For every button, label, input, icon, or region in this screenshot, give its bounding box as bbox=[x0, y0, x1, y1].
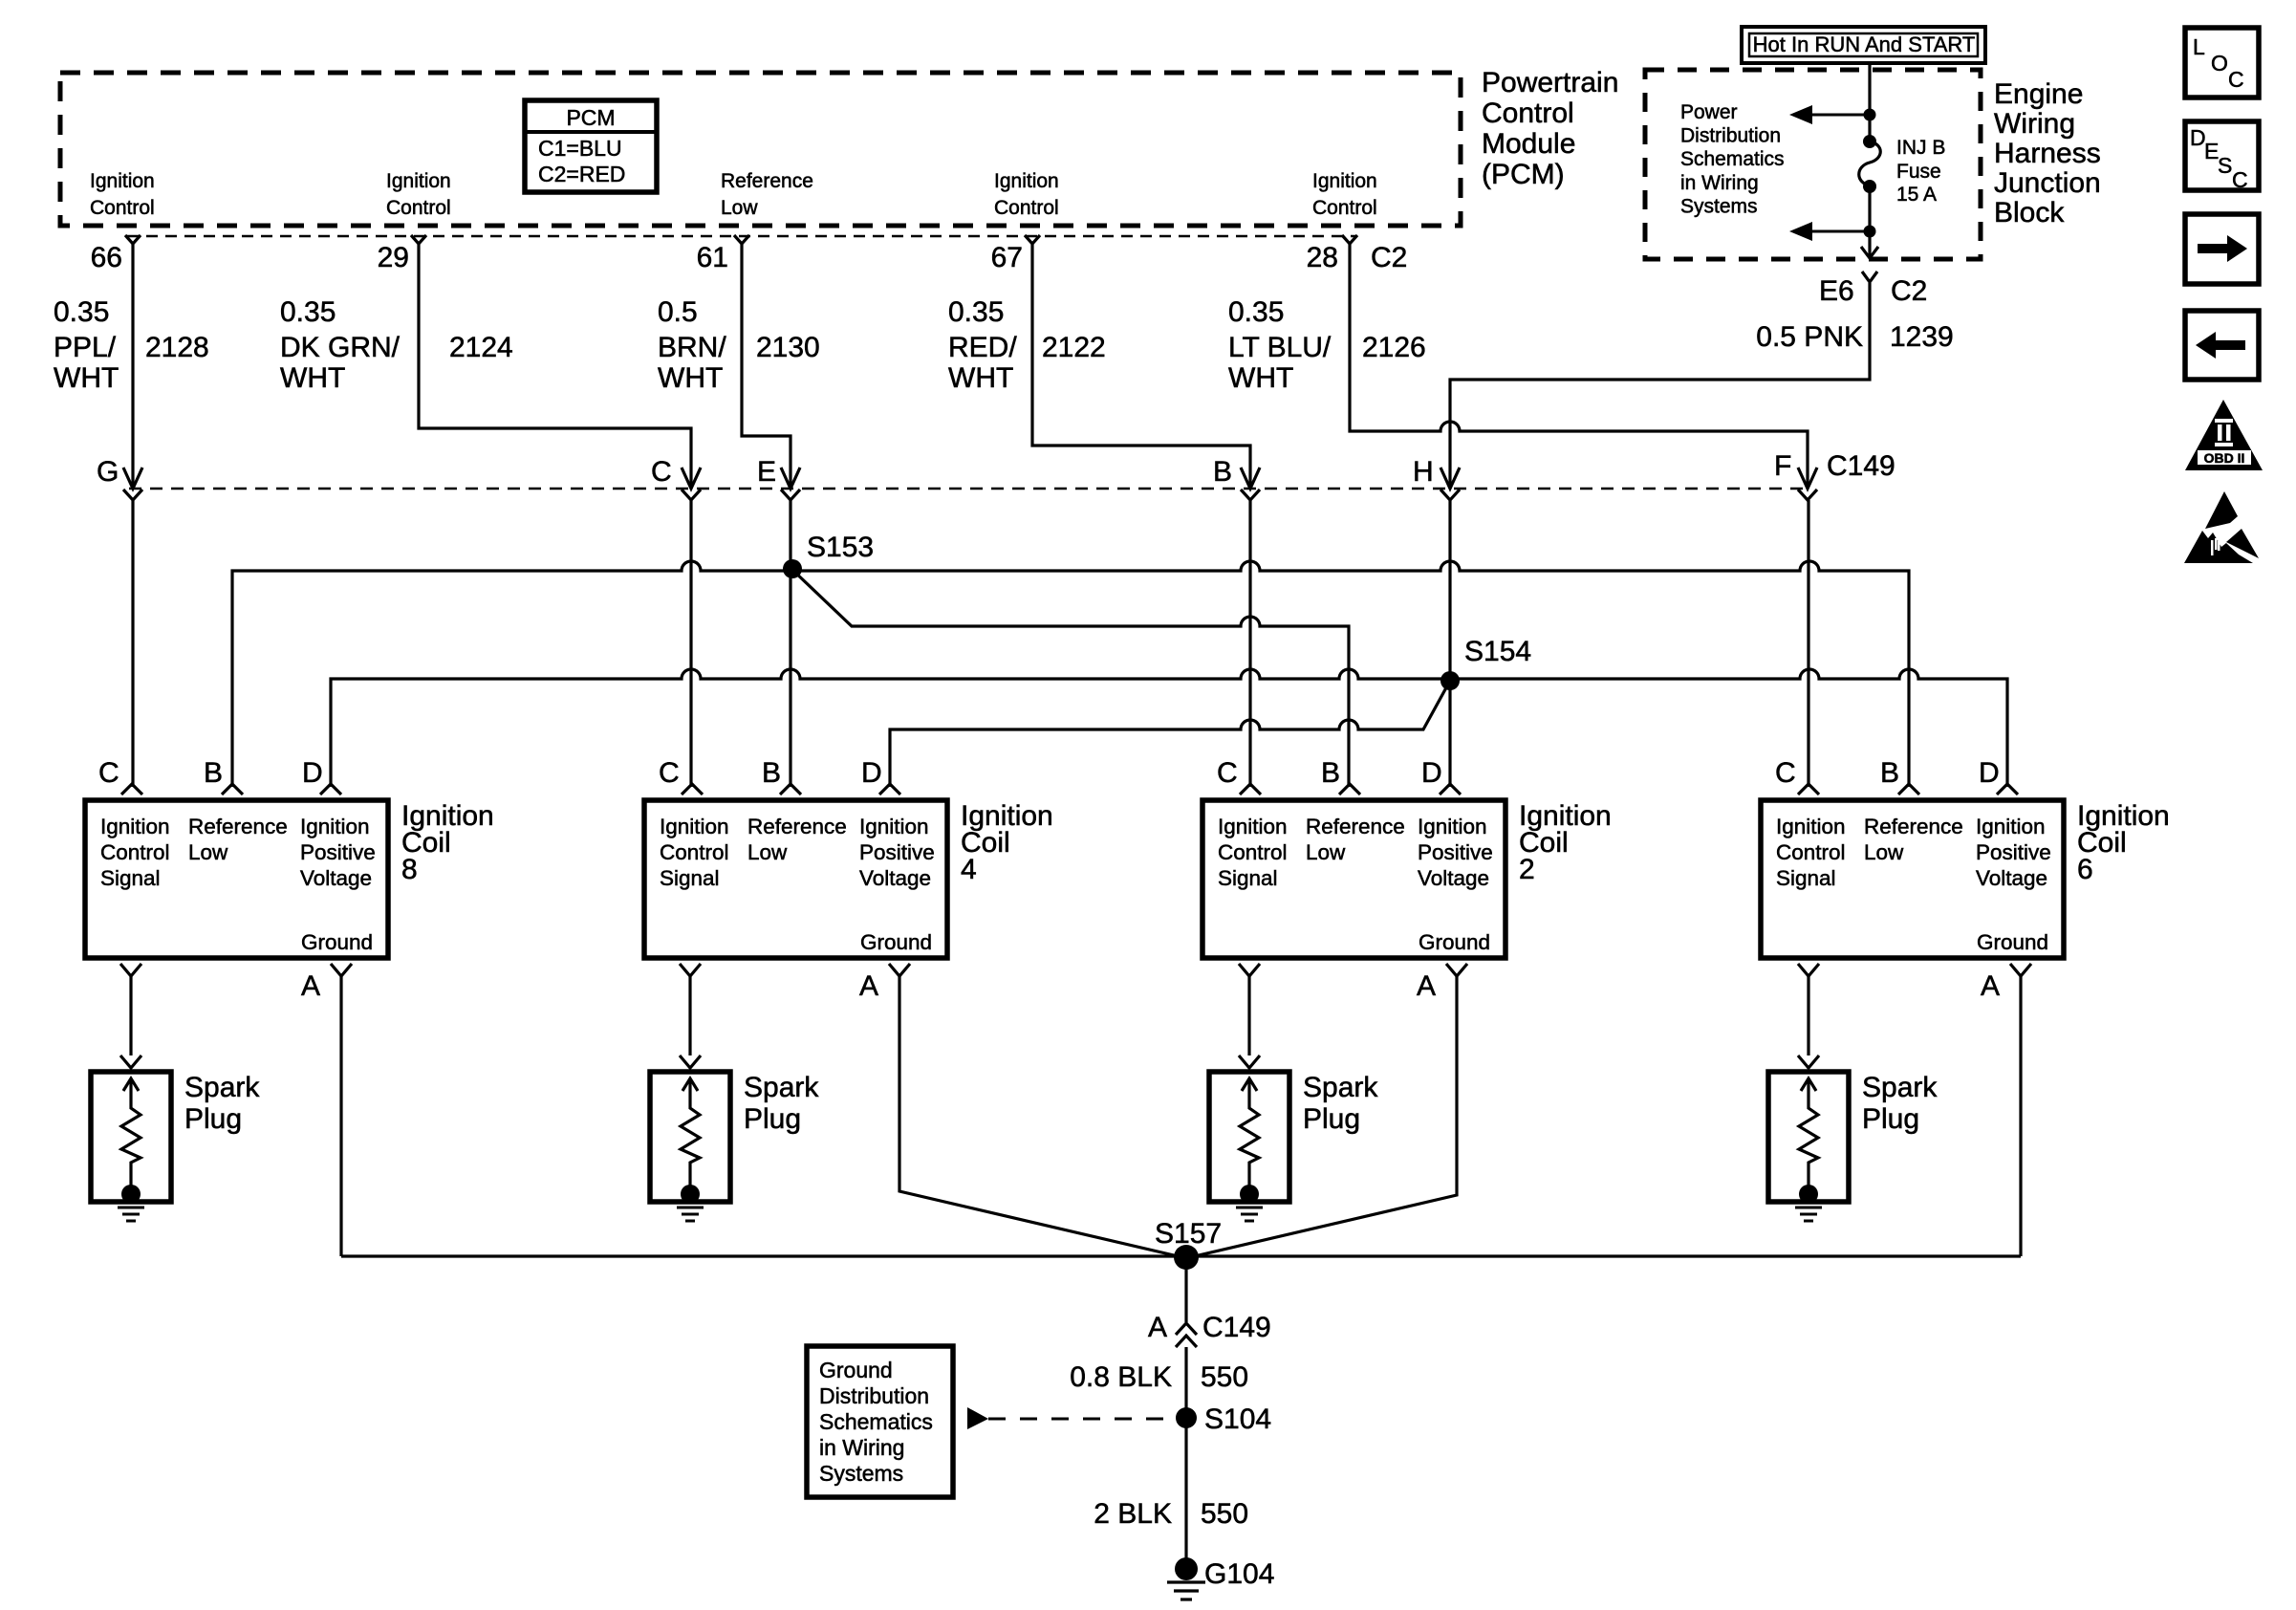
svg-text:E: E bbox=[757, 456, 776, 488]
svg-text:Ignition: Ignition bbox=[1312, 170, 1377, 192]
C149 pass-through arrow G bbox=[123, 468, 142, 489]
svg-text:Ground: Ground bbox=[819, 1358, 893, 1382]
PCM pin 61 terminal bbox=[734, 235, 749, 244]
svg-text:E6: E6 bbox=[1819, 275, 1854, 307]
svg-text:G104: G104 bbox=[1204, 1558, 1274, 1590]
svg-text:WHT: WHT bbox=[948, 362, 1013, 394]
spark plug bbox=[1768, 976, 1938, 1221]
svg-text:Ignition: Ignition bbox=[90, 170, 155, 192]
svg-text:Signal: Signal bbox=[1218, 866, 1278, 890]
svg-text:C: C bbox=[651, 456, 672, 488]
svg-text:Signal: Signal bbox=[1776, 866, 1836, 890]
wire 2130 BRN/WHT from pin 61 to C149 E bbox=[742, 244, 791, 489]
PCM pin 67 terminal bbox=[1025, 235, 1040, 244]
wire 550 0.8 BLK bbox=[1184, 1347, 1187, 1569]
svg-text:1239: 1239 bbox=[1890, 321, 1954, 353]
icon LOC bbox=[2185, 28, 2259, 98]
wire C149 C to ignition coil 4 pin C bbox=[689, 500, 692, 787]
C149 pass-through arrow E bbox=[781, 468, 800, 489]
svg-text:C: C bbox=[1217, 757, 1238, 789]
svg-text:Harness: Harness bbox=[1994, 138, 2101, 169]
S157 ground bus horizontal bbox=[341, 1254, 2021, 1257]
svg-text:Reference: Reference bbox=[1864, 815, 1963, 838]
PCM pin 66 terminal bbox=[125, 235, 141, 244]
svg-text:Control: Control bbox=[1776, 840, 1846, 864]
svg-text:O: O bbox=[2211, 51, 2228, 76]
svg-text:Ground: Ground bbox=[860, 930, 932, 954]
ground wire from S157 through C149 A bbox=[1184, 1257, 1187, 1322]
branch arrow to power distribution (bottom) bbox=[1864, 226, 1876, 238]
svg-text:INJ B: INJ B bbox=[1896, 137, 1945, 159]
svg-text:Spark: Spark bbox=[1303, 1072, 1378, 1103]
svg-text:61: 61 bbox=[697, 242, 728, 273]
svg-text:Fuse: Fuse bbox=[1896, 161, 1941, 183]
svg-text:C: C bbox=[98, 757, 119, 789]
svg-text:0.5 PNK: 0.5 PNK bbox=[1756, 321, 1863, 353]
svg-text:0.35: 0.35 bbox=[54, 296, 109, 328]
svg-text:B: B bbox=[204, 757, 223, 789]
fuse INJ B 15 A bbox=[1863, 135, 1876, 148]
svg-text:C2=RED: C2=RED bbox=[538, 162, 625, 186]
svg-text:Schematics: Schematics bbox=[1680, 148, 1785, 170]
connector E6 C2 bbox=[1862, 272, 1877, 282]
svg-text:Spark: Spark bbox=[1862, 1072, 1938, 1103]
svg-text:Spark: Spark bbox=[184, 1072, 260, 1103]
svg-text:Control: Control bbox=[100, 840, 170, 864]
svg-text:C: C bbox=[659, 757, 680, 789]
svg-text:L: L bbox=[2193, 34, 2205, 59]
svg-text:Voltage: Voltage bbox=[859, 866, 931, 890]
PCM connector C1/C2 dashed line bbox=[127, 235, 1355, 238]
svg-text:B: B bbox=[1321, 757, 1340, 789]
svg-text:8: 8 bbox=[401, 854, 418, 885]
svg-text:550: 550 bbox=[1201, 1498, 1248, 1530]
svg-text:6: 6 bbox=[2077, 854, 2093, 885]
svg-text:Power: Power bbox=[1680, 101, 1738, 123]
svg-text:Block: Block bbox=[1994, 197, 2065, 228]
wire C149 H through S154 to ignition coil 2 pin D bbox=[1448, 500, 1451, 787]
connector C149 dashed line bbox=[129, 488, 1808, 490]
svg-text:2130: 2130 bbox=[756, 332, 820, 363]
svg-text:0.35: 0.35 bbox=[280, 296, 336, 328]
ignition positive bus from coil 8 pin D through S154 to coil 6 pin D bbox=[331, 669, 2007, 787]
wire C149 F to ignition coil 6 pin C bbox=[1807, 500, 1809, 787]
reference low bus from coil 8 pin B through S153 to coil 6 pin B bbox=[232, 561, 1909, 787]
svg-text:Ignition: Ignition bbox=[386, 170, 451, 192]
svg-text:Low: Low bbox=[1864, 840, 1904, 864]
svg-text:Positive: Positive bbox=[1418, 840, 1493, 864]
svg-text:Reference: Reference bbox=[747, 815, 847, 838]
wire 2126 LT BLU/WHT from pin 28 to C149 F, hop over PNK wire bbox=[1350, 244, 1808, 489]
splice S104 bbox=[1176, 1407, 1197, 1428]
icon DESC bbox=[2185, 121, 2259, 192]
PCM pin 29 terminal bbox=[411, 235, 426, 244]
svg-text:Control: Control bbox=[1312, 197, 1377, 219]
svg-text:29: 29 bbox=[378, 242, 409, 273]
svg-text:Positive: Positive bbox=[1976, 840, 2051, 864]
svg-text:Distribution: Distribution bbox=[1680, 125, 1781, 147]
svg-text:Ignition: Ignition bbox=[1976, 815, 2046, 838]
ignition coil 8 bbox=[85, 757, 494, 1002]
svg-text:(PCM): (PCM) bbox=[1482, 159, 1565, 190]
C149 pass-through arrow H bbox=[1440, 468, 1460, 489]
svg-text:Voltage: Voltage bbox=[1418, 866, 1489, 890]
svg-text:DK GRN/: DK GRN/ bbox=[280, 332, 401, 363]
svg-text:A: A bbox=[1417, 970, 1436, 1002]
svg-text:Ignition: Ignition bbox=[994, 170, 1059, 192]
svg-text:Plug: Plug bbox=[1303, 1103, 1360, 1135]
svg-text:S104: S104 bbox=[1204, 1403, 1271, 1435]
PCM module dashed outline box bbox=[60, 73, 1461, 226]
svg-text:Ignition: Ignition bbox=[1418, 815, 1487, 838]
svg-text:Distribution: Distribution bbox=[819, 1383, 929, 1408]
svg-text:Engine: Engine bbox=[1994, 78, 2083, 110]
svg-text:2122: 2122 bbox=[1042, 332, 1106, 363]
svg-text:Control: Control bbox=[1218, 840, 1288, 864]
svg-text:Ignition: Ignition bbox=[1776, 815, 1846, 838]
svg-text:S154: S154 bbox=[1464, 636, 1531, 667]
PCM pin 28 terminal, connector C2 bbox=[1342, 235, 1357, 244]
svg-text:S153: S153 bbox=[807, 532, 874, 563]
PCM label box bbox=[525, 100, 657, 192]
engine wiring harness junction block dashed box bbox=[1645, 70, 1981, 259]
svg-text:Low: Low bbox=[721, 197, 758, 219]
svg-text:28: 28 bbox=[1307, 242, 1338, 273]
coil 4 ground wire A diagonal to S157 bbox=[899, 976, 1186, 1258]
svg-text:S157: S157 bbox=[1155, 1218, 1222, 1250]
svg-text:in Wiring: in Wiring bbox=[1680, 172, 1759, 194]
svg-text:2124: 2124 bbox=[449, 332, 513, 363]
svg-text:Plug: Plug bbox=[184, 1103, 242, 1135]
C149 pass-through arrow F bbox=[1798, 468, 1817, 489]
svg-text:Systems: Systems bbox=[819, 1461, 903, 1486]
svg-text:Ground: Ground bbox=[1977, 930, 2048, 954]
svg-text:Spark: Spark bbox=[744, 1072, 819, 1103]
ignition coil 6 bbox=[1761, 757, 2170, 1002]
svg-text:Module: Module bbox=[1482, 128, 1575, 160]
svg-text:Signal: Signal bbox=[100, 866, 161, 890]
coil 8 ground wire A to S157 bus bbox=[339, 976, 342, 1256]
svg-text:Control: Control bbox=[660, 840, 729, 864]
svg-text:4: 4 bbox=[961, 854, 977, 885]
svg-text:15 A: 15 A bbox=[1896, 184, 1937, 206]
svg-text:2 BLK: 2 BLK bbox=[1094, 1498, 1172, 1530]
spark plug bbox=[650, 976, 819, 1221]
svg-text:BRN/: BRN/ bbox=[658, 332, 726, 363]
svg-text:S: S bbox=[2218, 153, 2232, 178]
ignition coil 4 bbox=[644, 757, 1053, 1002]
svg-text:Powertrain: Powertrain bbox=[1482, 67, 1618, 98]
svg-text:D: D bbox=[861, 757, 882, 789]
svg-text:2126: 2126 bbox=[1362, 332, 1426, 363]
svg-text:Junction: Junction bbox=[1994, 167, 2101, 199]
svg-text:A: A bbox=[301, 970, 320, 1002]
svg-text:Ground: Ground bbox=[1419, 930, 1490, 954]
svg-text:Plug: Plug bbox=[1862, 1103, 1919, 1135]
svg-text:C: C bbox=[2232, 167, 2248, 192]
splice S154 bbox=[1440, 671, 1460, 690]
ground G104 bbox=[1175, 1557, 1198, 1580]
svg-text:A: A bbox=[1148, 1312, 1167, 1343]
svg-text:Control: Control bbox=[994, 197, 1059, 219]
svg-text:0.5: 0.5 bbox=[658, 296, 698, 328]
coil 6 ground wire A to S157 bus bbox=[2019, 976, 2022, 1256]
coil 2 ground wire A diagonal to S157 bbox=[1186, 976, 1457, 1258]
C149 pass-through arrow B bbox=[1241, 468, 1260, 489]
svg-text:Control: Control bbox=[386, 197, 451, 219]
svg-text:Control: Control bbox=[90, 197, 155, 219]
wire C149 B to ignition coil 2 pin C bbox=[1248, 500, 1251, 787]
svg-text:G: G bbox=[97, 456, 119, 488]
svg-text:Ignition: Ignition bbox=[100, 815, 170, 838]
splice S153 bbox=[783, 559, 802, 578]
spark plug bbox=[91, 976, 260, 1221]
svg-text:C1=BLU: C1=BLU bbox=[538, 136, 622, 161]
icon arrow right bbox=[2185, 214, 2259, 284]
svg-text:A: A bbox=[859, 970, 878, 1002]
svg-text:2: 2 bbox=[1519, 854, 1535, 885]
svg-text:66: 66 bbox=[91, 242, 122, 273]
svg-text:Ignition: Ignition bbox=[300, 815, 370, 838]
svg-text:Wiring: Wiring bbox=[1994, 108, 2075, 140]
svg-text:Systems: Systems bbox=[1680, 195, 1758, 217]
svg-text:550: 550 bbox=[1201, 1361, 1248, 1393]
svg-text:PPL/: PPL/ bbox=[54, 332, 117, 363]
svg-text:0.35: 0.35 bbox=[1228, 296, 1284, 328]
svg-text:Ignition: Ignition bbox=[660, 815, 729, 838]
icon arrow left bbox=[2185, 311, 2259, 380]
S153 branch diagonal to coil 2 pin B bbox=[791, 569, 1349, 787]
svg-text:Reference: Reference bbox=[721, 170, 813, 192]
arrow at junction block edge bbox=[1861, 247, 1878, 258]
svg-text:Control: Control bbox=[1482, 98, 1574, 129]
svg-text:in Wiring: in Wiring bbox=[819, 1435, 904, 1460]
wire C149 E through S153 to ignition coil 4 pin B bbox=[789, 500, 791, 787]
svg-text:Ground: Ground bbox=[301, 930, 373, 954]
svg-text:B: B bbox=[1880, 757, 1899, 789]
svg-text:D: D bbox=[1979, 757, 2000, 789]
svg-text:0.35: 0.35 bbox=[948, 296, 1004, 328]
svg-text:WHT: WHT bbox=[1228, 362, 1293, 394]
wire 2124 DK GRN/WHT from pin 29 to C149 C bbox=[419, 244, 691, 489]
svg-text:67: 67 bbox=[991, 242, 1023, 273]
svg-text:WHT: WHT bbox=[54, 362, 119, 394]
pointer to S104 bbox=[967, 1407, 988, 1429]
svg-text:Reference: Reference bbox=[188, 815, 288, 838]
branch from coil 4 pin D to S154 bbox=[890, 681, 1450, 787]
svg-text:Low: Low bbox=[1306, 840, 1346, 864]
svg-text:Reference: Reference bbox=[1306, 815, 1405, 838]
svg-text:Signal: Signal bbox=[660, 866, 720, 890]
svg-text:2128: 2128 bbox=[145, 332, 209, 363]
wire from fuse to E6 bbox=[1868, 186, 1871, 256]
svg-text:Ignition: Ignition bbox=[1218, 815, 1288, 838]
svg-text:D: D bbox=[1421, 757, 1442, 789]
svg-text:H: H bbox=[1413, 456, 1434, 488]
PNK feed wire from E6 down to C149 H bbox=[1450, 283, 1870, 489]
C149 pass-through arrow C bbox=[682, 468, 701, 489]
feed wire from hot box through fuse bbox=[1868, 63, 1871, 141]
ground distribution schematics note box bbox=[807, 1346, 953, 1497]
svg-text:Positive: Positive bbox=[859, 840, 935, 864]
svg-text:C2: C2 bbox=[1891, 275, 1927, 307]
spark plug bbox=[1209, 976, 1378, 1221]
svg-text:Voltage: Voltage bbox=[1976, 866, 2047, 890]
svg-text:C149: C149 bbox=[1827, 450, 1895, 482]
svg-text:D: D bbox=[302, 757, 323, 789]
branch arrow to power distribution (top) bbox=[1864, 109, 1876, 121]
svg-text:C: C bbox=[2228, 67, 2244, 92]
svg-text:Plug: Plug bbox=[744, 1103, 801, 1135]
svg-text:Low: Low bbox=[747, 840, 788, 864]
svg-text:C: C bbox=[1775, 757, 1796, 789]
svg-text:WHT: WHT bbox=[280, 362, 345, 394]
svg-text:Schematics: Schematics bbox=[819, 1409, 933, 1434]
svg-text:B: B bbox=[762, 757, 781, 789]
svg-text:A: A bbox=[1981, 970, 2000, 1002]
svg-text:PCM: PCM bbox=[566, 105, 615, 130]
svg-text:OBD II: OBD II bbox=[2204, 450, 2245, 466]
svg-text:RED/: RED/ bbox=[948, 332, 1017, 363]
wire C149 G to ignition coil 8 pin C bbox=[131, 500, 134, 787]
icon ESD symbol bbox=[2184, 491, 2259, 563]
svg-text:Voltage: Voltage bbox=[300, 866, 372, 890]
svg-text:Ignition: Ignition bbox=[859, 815, 929, 838]
ignition coil 2 bbox=[1202, 757, 1612, 1002]
svg-text:C2: C2 bbox=[1371, 242, 1407, 273]
svg-text:LT BLU/: LT BLU/ bbox=[1228, 332, 1332, 363]
svg-text:F: F bbox=[1774, 450, 1791, 482]
svg-text:C149: C149 bbox=[1202, 1312, 1271, 1343]
svg-text:WHT: WHT bbox=[658, 362, 723, 394]
icon OBD II triangle bbox=[2185, 400, 2263, 470]
Hot In RUN And START box bbox=[1742, 27, 1985, 63]
splice S157 bbox=[1174, 1245, 1199, 1270]
svg-text:Hot In RUN And START: Hot In RUN And START bbox=[1753, 33, 1976, 56]
svg-text:Positive: Positive bbox=[300, 840, 376, 864]
wire 2122 RED/WHT from pin 67 to C149 B bbox=[1032, 244, 1250, 489]
svg-text:0.8 BLK: 0.8 BLK bbox=[1070, 1361, 1172, 1393]
svg-text:B: B bbox=[1213, 456, 1232, 488]
svg-text:Low: Low bbox=[188, 840, 228, 864]
wire 2128 PPL/WHT from pin 66 to C149 G bbox=[131, 244, 134, 489]
